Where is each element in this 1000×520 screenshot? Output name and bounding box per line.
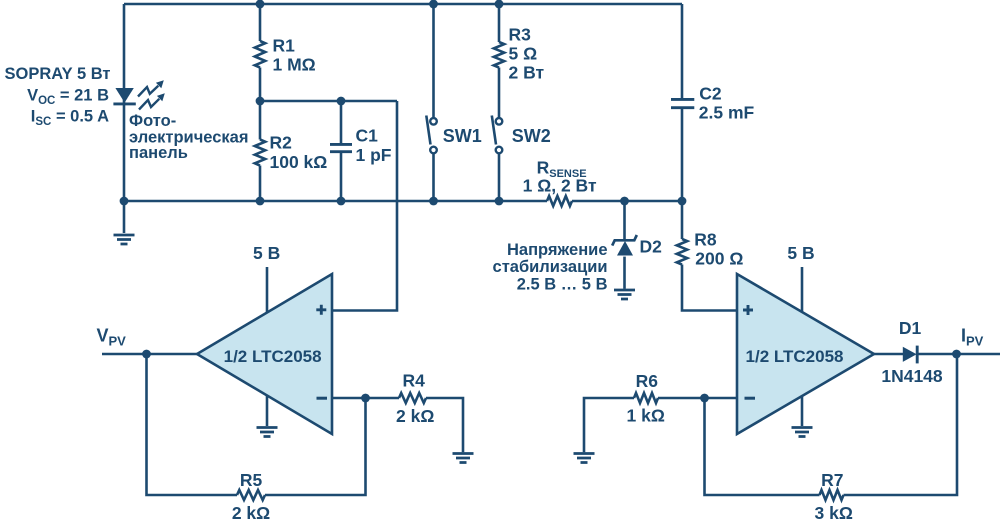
wire R4 to ground — [426, 398, 463, 452]
wire U2 output — [874, 353, 903, 356]
wire to op-amp U1 + input — [332, 101, 397, 311]
svg-text:C1: C1 — [356, 125, 379, 145]
zener diode D2 — [623, 201, 626, 240]
wire R5 to minus node — [265, 398, 366, 495]
op-amp U1 1/2 LTC2058 (output points left) — [197, 274, 332, 434]
wire D1 to IPV — [918, 353, 1000, 356]
node U1 minus — [361, 394, 370, 403]
node bus R2 — [256, 197, 265, 206]
node bus SW1 — [429, 197, 438, 206]
wire divider node horizontal — [260, 100, 397, 103]
wire R3 branch top — [498, 4, 501, 42]
ground (R6) — [574, 454, 595, 463]
svg-text:R4: R4 — [403, 370, 426, 390]
wire U1 minus input — [332, 397, 399, 400]
ground (PV panel) — [114, 235, 135, 244]
switch SW1 — [432, 4, 435, 117]
svg-text:SW2: SW2 — [512, 126, 551, 146]
node C1 top — [337, 97, 346, 106]
resistor R6 — [634, 393, 658, 403]
svg-text:IPV: IPV — [961, 326, 984, 349]
wire U2 5V supply — [801, 267, 804, 312]
svg-text:Фото-: Фото- — [129, 112, 176, 130]
resistor R8 — [681, 201, 684, 239]
node bus PV — [120, 197, 129, 206]
wire R8 to op-amp U2 + input — [682, 265, 737, 311]
svg-text:R5: R5 — [240, 470, 263, 490]
svg-text:R1: R1 — [273, 36, 296, 56]
diode D1 — [903, 347, 917, 362]
svg-text:2.5 mF: 2.5 mF — [699, 103, 755, 123]
svg-text:D2: D2 — [640, 237, 663, 257]
ground (U1) — [257, 428, 278, 437]
wire U2 minus input — [705, 397, 738, 400]
capacitor C2 — [681, 4, 684, 98]
svg-text:1/2 LTC2058: 1/2 LTC2058 — [746, 347, 844, 366]
node bus C2-R8 — [678, 197, 687, 206]
light arrow 1 — [138, 80, 164, 96]
svg-text:1/2 LTC2058: 1/2 LTC2058 — [224, 347, 322, 366]
svg-text:5 В: 5 В — [787, 243, 814, 263]
svg-text:100 kΩ: 100 kΩ — [270, 152, 328, 172]
svg-text:C2: C2 — [699, 84, 722, 104]
node bus SW2 — [495, 197, 504, 206]
svg-text:2.5 В … 5 В: 2.5 В … 5 В — [517, 275, 608, 293]
U2 minus input symbol — [745, 397, 756, 400]
svg-text:5 Ω: 5 Ω — [509, 44, 538, 64]
resistor R3 — [494, 42, 504, 68]
svg-text:5 В: 5 В — [253, 243, 280, 263]
svg-text:1 pF: 1 pF — [356, 145, 392, 165]
svg-text:2 Вт: 2 Вт — [509, 62, 545, 82]
wire feedback loop R7 — [705, 398, 820, 495]
node top R3 — [495, 0, 504, 8]
svg-text:R2: R2 — [270, 133, 293, 153]
svg-text:R6: R6 — [636, 371, 659, 391]
ground (U2) — [792, 428, 813, 437]
wire R1 bottom — [259, 68, 262, 102]
svg-text:Напряжение: Напряжение — [507, 241, 608, 259]
wire R6 to minus node — [658, 397, 705, 400]
wire U2 ground pin — [801, 396, 804, 427]
svg-text:1N4148: 1N4148 — [881, 366, 943, 386]
node bus C1 — [337, 197, 346, 206]
svg-text:1 kΩ: 1 kΩ — [627, 405, 665, 425]
capacitor C1 — [340, 101, 343, 143]
U1 minus input symbol — [317, 397, 328, 400]
svg-text:SW1: SW1 — [443, 126, 482, 146]
op-amp U2 1/2 LTC2058 (output points right) — [737, 274, 874, 434]
svg-text:стабилизации: стабилизации — [493, 258, 608, 276]
svg-text:1 Ω, 2 Вт: 1 Ω, 2 Вт — [523, 176, 597, 196]
node VPV — [142, 350, 151, 359]
svg-text:R7: R7 — [821, 470, 843, 490]
light arrow 2 — [139, 93, 165, 109]
wire ground bus — [124, 200, 547, 203]
svg-text:R8: R8 — [694, 230, 717, 250]
svg-text:R3: R3 — [509, 25, 532, 45]
svg-text:2 kΩ: 2 kΩ — [396, 406, 434, 426]
node divider R1-R2 — [256, 97, 265, 106]
U1 plus input symbol — [316, 305, 326, 315]
svg-text:200 Ω: 200 Ω — [695, 248, 743, 268]
svg-text:SOPRAY 5 Вт: SOPRAY 5 Вт — [5, 65, 111, 83]
svg-text:ISC = 0.5 A: ISC = 0.5 A — [31, 108, 109, 129]
wire top rail — [124, 3, 682, 6]
ground (D2) — [614, 290, 635, 299]
wire left vertical (PV branch) — [123, 4, 126, 233]
svg-text:VOC = 21 В: VOC = 21 В — [27, 87, 109, 108]
wire U1 5V supply — [266, 267, 269, 313]
resistor R2 — [259, 101, 262, 140]
svg-text:панель: панель — [129, 144, 188, 162]
wire U1 ground pin — [266, 395, 269, 426]
photovoltaic panel diode symbol — [113, 88, 135, 104]
wire R7 to IPV node — [844, 354, 958, 495]
resistor R7 — [820, 490, 844, 500]
node IPV — [952, 350, 961, 359]
svg-text:1 MΩ: 1 MΩ — [273, 55, 316, 75]
svg-text:VPV: VPV — [97, 326, 127, 349]
switch SW2 — [498, 68, 501, 118]
wire bus right of RSENSE — [572, 200, 682, 203]
svg-text:2 kΩ: 2 kΩ — [232, 503, 270, 520]
node top SW1 — [429, 0, 438, 8]
resistor R5 — [237, 490, 265, 500]
svg-text:3 kΩ: 3 kΩ — [815, 503, 853, 520]
wire U1 output to VPV — [102, 353, 197, 356]
ground (R4) — [453, 454, 474, 463]
wire feedback loop R5 — [147, 354, 238, 495]
resistor RSENSE — [547, 196, 572, 206]
node top R1 — [256, 0, 265, 8]
node U2 minus — [700, 394, 709, 403]
wire R6 left leg to ground — [584, 398, 634, 452]
wire R1 branch top — [259, 4, 262, 41]
resistor R4 — [399, 393, 426, 403]
node bus D2 — [620, 197, 629, 206]
svg-text:D1: D1 — [899, 318, 922, 338]
resistor R1 — [255, 41, 265, 68]
U2 plus input symbol — [743, 305, 753, 315]
